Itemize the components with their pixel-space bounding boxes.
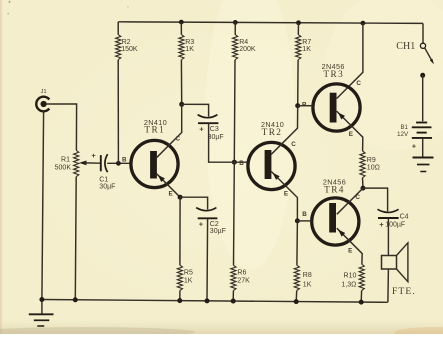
- node TR3 base junction: [295, 103, 300, 108]
- wire battery top: [422, 75, 424, 121]
- svg-text:TR3: TR3: [323, 70, 344, 80]
- svg-text:30µF: 30µF: [208, 134, 224, 141]
- resistor R2 150K: [116, 22, 138, 164]
- svg-text:+: +: [379, 220, 384, 229]
- node C1/R2/base junction: [116, 161, 121, 166]
- wire C4 to speaker: [387, 218, 389, 256]
- svg-text:500K: 500K: [55, 165, 72, 172]
- wire C1 to TR1 base: [107, 162, 130, 164]
- svg-text:12V: 12V: [397, 131, 409, 138]
- wire rail to TR3 collector: [361, 21, 366, 26]
- svg-text:R6: R6: [237, 270, 246, 277]
- transistor TR3 2N456: [298, 62, 363, 151]
- wire J1 to ground rail: [42, 111, 44, 300]
- wire speaker to rail: [387, 269, 390, 302]
- capacitor C4 100uF: [378, 209, 409, 229]
- resistor R5 1K: [177, 197, 193, 300]
- wire bottom ground rail: [42, 300, 388, 303]
- wire C2 to ground rail: [206, 218, 209, 301]
- node TR4 base junction: [295, 218, 300, 223]
- svg-text:10Ω: 10Ω: [367, 164, 380, 171]
- ground main: [29, 300, 54, 327]
- svg-text:C: C: [291, 141, 296, 148]
- svg-text:FTE.: FTE.: [392, 286, 416, 297]
- svg-text:E: E: [348, 248, 352, 255]
- resistor R7 1K: [296, 20, 312, 105]
- svg-text:R3: R3: [185, 39, 194, 46]
- svg-text:R7: R7: [302, 39, 311, 46]
- wire C3 to TR2 base line: [209, 123, 248, 162]
- svg-text:R9: R9: [367, 157, 376, 164]
- svg-text:1K: 1K: [185, 46, 194, 53]
- wire battery to ground: [422, 138, 424, 157]
- svg-text:R10: R10: [344, 272, 357, 279]
- svg-text:CH1: CH1: [396, 41, 415, 52]
- svg-text:1K: 1K: [303, 282, 312, 289]
- wire emitter junction to C2: [180, 197, 208, 209]
- resistor R8 1K: [294, 221, 312, 302]
- wire top supply rail: [118, 22, 423, 24]
- wire R1 bottom to rail: [74, 177, 77, 300]
- svg-text:1,3Ω: 1,3Ω: [341, 281, 356, 288]
- svg-text:TR2: TR2: [262, 128, 283, 138]
- node TR1 emitter junction: [178, 195, 183, 200]
- svg-text:B: B: [122, 156, 127, 163]
- switch CH1: [396, 23, 434, 64]
- svg-text:B: B: [302, 211, 307, 218]
- svg-text:1K: 1K: [302, 46, 311, 53]
- wire collector junction to C3: [182, 104, 209, 116]
- svg-text:R5: R5: [184, 270, 193, 277]
- capacitor C3 30uF: [198, 115, 224, 141]
- svg-text:B: B: [239, 160, 244, 167]
- svg-text:+: +: [91, 151, 96, 160]
- svg-text:C4: C4: [400, 214, 409, 221]
- node rail dots: [39, 297, 363, 305]
- svg-text:C2: C2: [210, 221, 219, 228]
- svg-text:E: E: [349, 131, 353, 138]
- svg-text:B: B: [302, 102, 307, 109]
- resistor R9 10ohm: [360, 151, 380, 188]
- wire junction to C4: [363, 188, 388, 211]
- svg-text:R4: R4: [239, 39, 248, 46]
- wiper arrow of R1: [79, 161, 100, 166]
- svg-text:C: C: [356, 80, 361, 87]
- svg-text:E: E: [284, 190, 288, 197]
- svg-text:TR4: TR4: [324, 186, 345, 196]
- node TR2 base junction: [232, 160, 237, 165]
- svg-text:C1: C1: [99, 177, 108, 184]
- svg-text:150K: 150K: [121, 46, 138, 53]
- svg-text:R1: R1: [61, 157, 70, 164]
- svg-text:C3: C3: [210, 126, 219, 133]
- svg-text:+: +: [199, 124, 204, 133]
- resistor R10 1.3ohm: [341, 264, 364, 302]
- svg-text:TR1: TR1: [144, 126, 165, 136]
- node TR4 collector junction: [361, 186, 366, 191]
- resistor R4 200K: [233, 20, 256, 162]
- svg-text:R2: R2: [122, 39, 131, 46]
- svg-text:1K: 1K: [184, 278, 193, 285]
- capacitor C1 30uF: [91, 151, 115, 191]
- svg-text:27K: 27K: [237, 278, 250, 285]
- connector J1: [36, 89, 49, 111]
- potentiometer R1 500K: [55, 150, 79, 176]
- svg-text:30µF: 30µF: [99, 184, 115, 191]
- capacitor C2 30uF: [196, 208, 226, 236]
- node battery top: [420, 73, 425, 78]
- svg-text:B1: B1: [400, 125, 408, 131]
- wire J1 to R1 top: [46, 104, 77, 150]
- node TR1 collector junction: [179, 102, 184, 107]
- speaker FTE: [382, 243, 416, 297]
- transistor TR2 2N410: [239, 106, 297, 221]
- ground battery: [413, 158, 434, 172]
- transistor TR1 2N410: [122, 104, 182, 197]
- svg-text:+: +: [199, 219, 204, 228]
- battery B1 12V: [397, 123, 432, 151]
- svg-text:+: +: [412, 142, 417, 151]
- resistor R3 1K: [179, 20, 195, 105]
- svg-text:C: C: [176, 136, 181, 143]
- svg-text:J1: J1: [40, 89, 46, 95]
- svg-text:R8: R8: [303, 272, 312, 279]
- svg-text:200K: 200K: [239, 46, 256, 53]
- svg-text:30µF: 30µF: [210, 228, 226, 235]
- svg-text:E: E: [168, 190, 172, 197]
- transistor TR4 2N456: [297, 178, 363, 265]
- svg-text:C: C: [355, 194, 360, 201]
- resistor R6 27K: [231, 162, 250, 301]
